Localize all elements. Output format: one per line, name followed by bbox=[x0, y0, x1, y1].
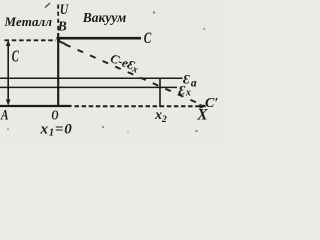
X axis solid part (bottom of well, A) bbox=[0, 105, 72, 107]
svg-text:Вакуум: Вакуум bbox=[82, 10, 127, 25]
level E0 line bbox=[0, 77, 183, 79]
ink blob at B corner junction bbox=[57, 38, 60, 41]
scan speck bottom 2 bbox=[195, 130, 197, 132]
scan speck bottom 3 bbox=[7, 128, 9, 130]
svg-text:B: B bbox=[57, 19, 67, 34]
scan speck bottom 4 bbox=[127, 132, 129, 134]
diagonal dashed line C - eEx (external field potential) bbox=[58, 41, 66, 44]
svg-text:Металл: Металл bbox=[4, 14, 53, 29]
level Ex line bbox=[0, 86, 177, 88]
scan speck right mid bbox=[203, 28, 205, 30]
svg-text:C: C bbox=[144, 30, 152, 47]
scan speck top left of axis bbox=[45, 3, 50, 8]
potential wall vertical (x=0 surface) bbox=[57, 33, 59, 107]
svg-text:A: A bbox=[0, 108, 8, 124]
U axis (dashed vertical above B) bbox=[57, 5, 59, 32]
work function double arrow bbox=[7, 43, 9, 103]
scan speck bottom 1 bbox=[102, 126, 104, 128]
svg-text:C: C bbox=[12, 46, 20, 65]
svg-text:U: U bbox=[60, 2, 69, 18]
svg-text:C′: C′ bbox=[205, 96, 218, 111]
X axis dashed part bbox=[75, 105, 201, 107]
barrier top line B-C bbox=[57, 37, 142, 40]
svg-text:x1=0: x1=0 bbox=[40, 121, 73, 138]
paper background bbox=[0, 0, 224, 147]
scan speck above vacuum bbox=[153, 11, 155, 13]
dashed barrier level extended into metal bbox=[5, 39, 57, 41]
ordinate line at x2 bbox=[159, 79, 161, 108]
X axis arrowhead bbox=[200, 104, 207, 109]
